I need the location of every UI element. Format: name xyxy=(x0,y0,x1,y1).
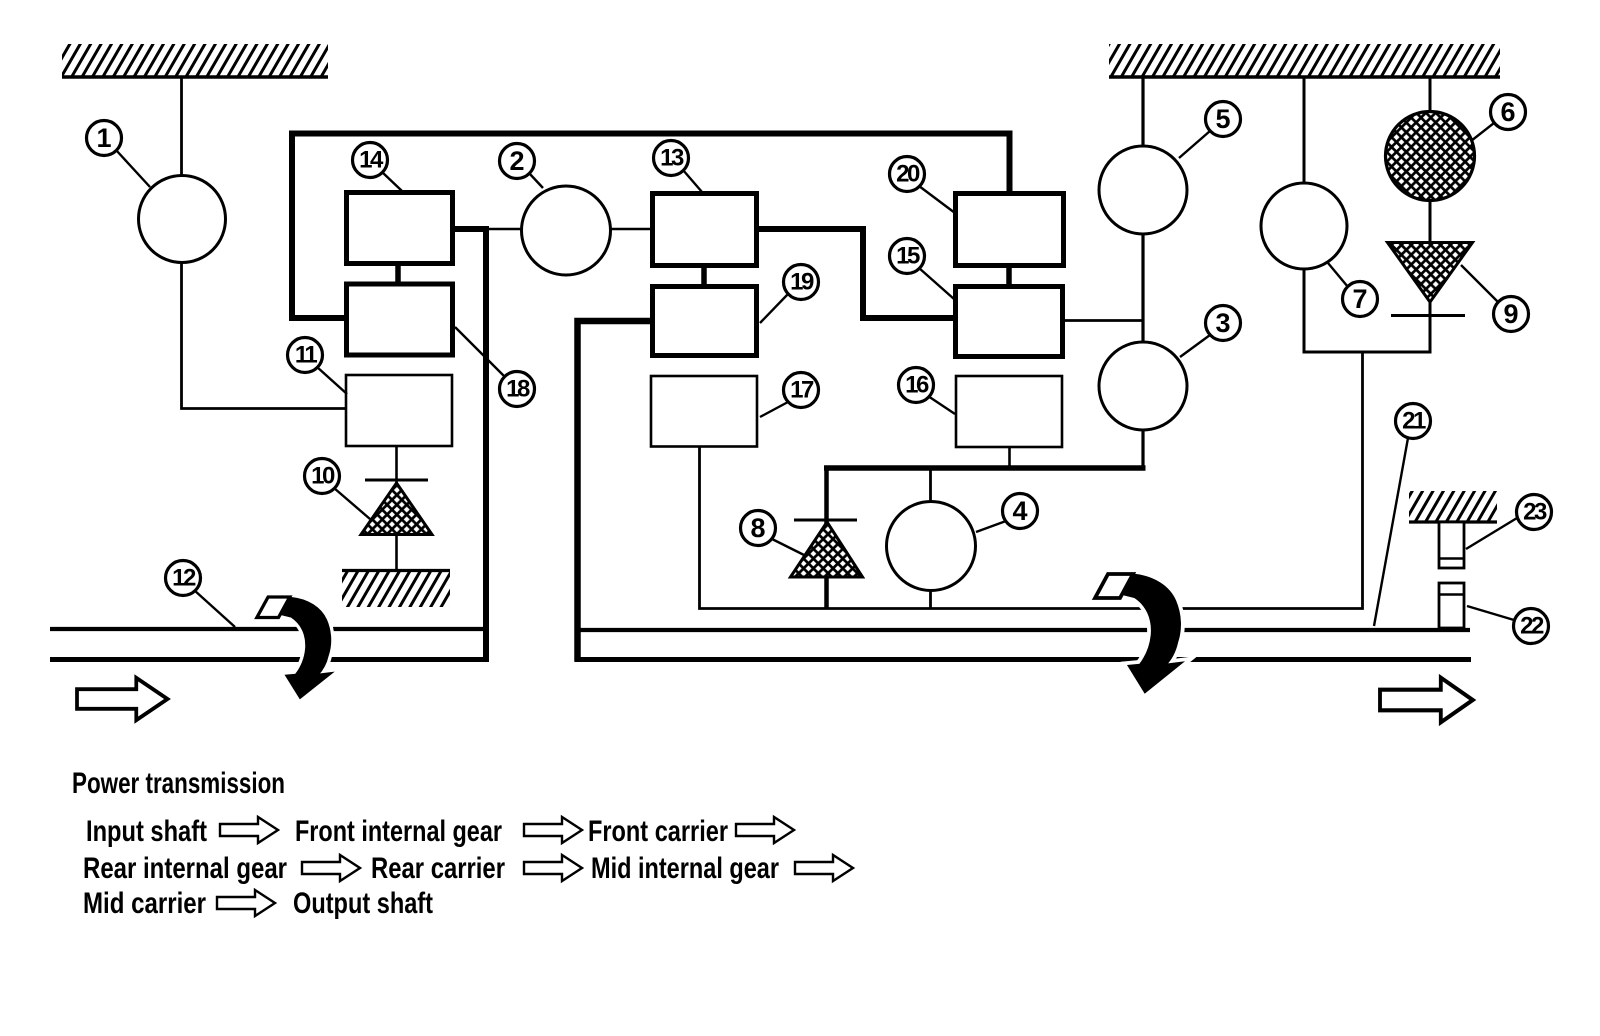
connector box14-box18 xyxy=(395,266,401,282)
one-way clutch 10 stem xyxy=(395,534,398,570)
circle 2 xyxy=(522,186,611,275)
right shaft bottom line xyxy=(575,657,1472,662)
connector box13-box19 xyxy=(701,267,707,284)
svg-text:17: 17 xyxy=(790,377,814,404)
circle 5 xyxy=(1099,146,1187,234)
part 23 (fixed sleeve) xyxy=(1439,522,1464,568)
thick vertical to left shaft xyxy=(483,226,489,662)
one-way clutch 9 triangle xyxy=(1388,243,1473,303)
svg-text:Input shaft: Input shaft xyxy=(86,815,207,848)
svg-text:4: 4 xyxy=(1012,496,1027,526)
left shaft bottom line xyxy=(50,657,489,662)
wall top-left xyxy=(62,44,328,77)
label 11 xyxy=(288,338,348,395)
svg-text:5: 5 xyxy=(1215,104,1230,134)
label 2 xyxy=(500,144,544,189)
svg-text:12: 12 xyxy=(172,565,196,592)
one-way clutch 10 triangle xyxy=(361,483,432,535)
svg-text:16: 16 xyxy=(905,372,929,399)
label 5 xyxy=(1179,102,1241,159)
output block arrow xyxy=(1380,678,1473,723)
one-way clutch 9 bar xyxy=(1391,314,1465,317)
svg-text:21: 21 xyxy=(1402,408,1426,435)
label 1 xyxy=(87,121,151,188)
svg-text:10: 10 xyxy=(311,463,335,490)
label 15 xyxy=(890,239,955,300)
label 20 xyxy=(890,157,956,214)
svg-text:11: 11 xyxy=(295,342,318,369)
svg-text:Front carrier: Front carrier xyxy=(588,815,728,848)
label 22 xyxy=(1467,606,1549,644)
box 19 xyxy=(653,287,757,356)
thick bus top (front internal gear frame) xyxy=(292,134,1010,319)
label 17 xyxy=(760,373,819,418)
label 13 xyxy=(654,141,703,193)
circle 3 xyxy=(1099,342,1187,430)
svg-text:19: 19 xyxy=(790,269,814,296)
svg-text:8: 8 xyxy=(750,513,765,543)
right shaft top line xyxy=(575,628,1471,632)
wall mid (below triangle 10) xyxy=(342,571,450,608)
label 23 xyxy=(1466,495,1552,550)
box 16 xyxy=(956,376,1062,447)
circle 1 xyxy=(139,176,226,263)
svg-text:3: 3 xyxy=(1215,308,1230,338)
svg-text:Power transmission: Power transmission xyxy=(72,767,285,800)
box 15 xyxy=(956,287,1063,357)
svg-text:Mid carrier: Mid carrier xyxy=(83,887,206,920)
svg-text:22: 22 xyxy=(1520,613,1544,640)
svg-text:14: 14 xyxy=(359,147,384,174)
box 13 xyxy=(653,194,757,266)
wire circle 1 to box 11 xyxy=(182,262,346,409)
junction wire 7-9 xyxy=(1303,351,1432,354)
svg-text:20: 20 xyxy=(896,161,920,188)
circle 4 xyxy=(887,502,976,591)
svg-text:Output shaft: Output shaft xyxy=(293,887,433,920)
circle 7 xyxy=(1261,183,1347,269)
label 7 xyxy=(1328,263,1378,317)
wire box14 to circle 2 xyxy=(455,228,522,231)
wire circle 2 to box 13 xyxy=(610,228,650,231)
thick rear-carrier bus xyxy=(824,465,1146,471)
box 14 xyxy=(347,193,453,264)
svg-text:13: 13 xyxy=(660,145,684,172)
thick wire bus to box 18 xyxy=(289,315,344,321)
svg-text:1: 1 xyxy=(96,123,111,153)
label 19 xyxy=(760,265,819,324)
label 21 xyxy=(1374,404,1431,627)
svg-text:Mid internal gear: Mid internal gear xyxy=(591,852,779,885)
svg-text:6: 6 xyxy=(1500,97,1515,127)
wire box11 to triangle 10 xyxy=(395,446,398,484)
label 9 xyxy=(1461,265,1529,332)
rotation arrow (right) xyxy=(1095,574,1181,692)
label 12 xyxy=(166,561,236,628)
svg-text:23: 23 xyxy=(1523,499,1547,526)
thick stub box14 right xyxy=(455,226,489,232)
wire circle3 down xyxy=(1141,430,1144,468)
left shaft top line xyxy=(50,627,489,631)
wire circle7 down xyxy=(1303,269,1306,354)
box 17 xyxy=(651,376,757,447)
box 11 xyxy=(346,375,452,446)
box 18 xyxy=(347,284,453,355)
svg-text:15: 15 xyxy=(896,243,920,270)
one-way clutch 10 bar xyxy=(365,479,428,482)
label 3 xyxy=(1180,306,1241,358)
label 14 xyxy=(353,143,403,192)
label 10 xyxy=(305,459,371,520)
connector box20-box15 xyxy=(1006,267,1012,284)
wire box16 down xyxy=(1008,447,1011,466)
svg-text:Front internal gear: Front internal gear xyxy=(295,815,502,848)
label 16 xyxy=(899,368,956,415)
svg-text:Rear internal gear: Rear internal gear xyxy=(83,852,287,885)
label 4 xyxy=(976,494,1038,533)
part 22 (sliding sleeve) xyxy=(1439,583,1464,628)
wire circle4 bottom xyxy=(929,590,932,609)
wall right small (above part 23) xyxy=(1409,491,1497,522)
rotation arrow 12 (left) xyxy=(257,597,331,698)
svg-text:18: 18 xyxy=(506,376,530,403)
wire box15 to line5-3 xyxy=(1063,319,1142,322)
wire gear6 to one-way clutch 9 xyxy=(1429,200,1432,242)
wire circle5 to circle3 xyxy=(1141,234,1144,343)
label 18 xyxy=(455,327,535,407)
wire wall to circle 1 xyxy=(180,77,183,176)
input block arrow xyxy=(77,678,167,720)
one-way clutch 8 bar xyxy=(794,519,857,522)
label 6 xyxy=(1471,95,1526,142)
one-way clutch 9 stem xyxy=(1429,300,1432,354)
svg-text:2: 2 xyxy=(509,146,524,176)
wire wall to circle 7 xyxy=(1303,77,1306,184)
one-way clutch 8 vertical xyxy=(824,468,829,609)
wire wall to gear 6 xyxy=(1429,77,1432,112)
svg-text:7: 7 xyxy=(1352,284,1367,314)
wall top-right xyxy=(1109,44,1500,77)
wire wall to circle 5 xyxy=(1141,77,1144,147)
label 8 xyxy=(741,511,805,556)
thick wire box13 to box15 xyxy=(759,229,953,318)
one-way clutch 8 triangle xyxy=(791,522,863,577)
svg-text:Rear carrier: Rear carrier xyxy=(371,852,505,885)
wire circle4 top xyxy=(929,468,932,502)
thick wire box19 to mid shaft xyxy=(578,321,651,662)
gear 6 (crosshatched) xyxy=(1386,112,1475,201)
box 20 xyxy=(956,194,1064,266)
svg-text:9: 9 xyxy=(1503,299,1518,329)
wire net box17/junction xyxy=(700,352,1363,609)
